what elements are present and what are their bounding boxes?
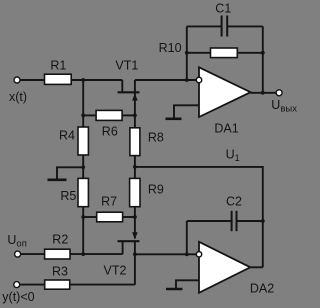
wire Uop to R2 [21, 253, 45, 255]
wire VT2 drain to DA2 input [135, 253, 197, 255]
wire feedback left vertical [186, 26, 188, 80]
wire DA2 noninv [176, 280, 199, 288]
node R6/R8 [133, 114, 137, 118]
node R5/R7 [81, 215, 85, 219]
wire R3 to VT2 source [70, 284, 135, 286]
svg-text:R6: R6 [102, 125, 118, 139]
node VT2 drain [133, 252, 137, 256]
wire x(t) to R1 [20, 79, 44, 81]
svg-text:R2: R2 [52, 233, 68, 247]
wire y(t) to R3 [20, 284, 45, 286]
wire R9 to R7 node [134, 207, 136, 239]
capacitor C1 [187, 16, 263, 37]
svg-text:y(t)<0: y(t)<0 [2, 290, 34, 304]
resistor R8 [130, 128, 140, 156]
node C2/input [185, 252, 189, 256]
wire feedback right vertical [262, 26, 264, 92]
node R2/R5 [81, 252, 85, 256]
transistor VT2 [118, 232, 140, 285]
node C2 right [261, 219, 265, 223]
svg-text:R10: R10 [159, 41, 182, 55]
svg-text:R8: R8 [148, 131, 164, 145]
node R9/R7 [133, 215, 137, 219]
terminal Uvyh [276, 90, 282, 96]
wire R7 right [123, 216, 135, 218]
terminal Uop [15, 251, 21, 257]
wire DA1 noninv [174, 105, 199, 118]
wire C2 to DA2 input [186, 221, 188, 254]
wire R6 right [122, 114, 135, 116]
resistor R5 [78, 178, 88, 206]
svg-text:R5: R5 [60, 189, 76, 203]
ground DA1 [166, 118, 182, 121]
wire R1 to VT1 gate [71, 79, 122, 81]
svg-text:DA1: DA1 [214, 121, 238, 135]
resistor R9 [130, 178, 140, 206]
resistor R7 [97, 212, 123, 222]
wire R8 top [134, 115, 136, 127]
svg-text:R4: R4 [59, 129, 75, 143]
terminal x(t) [14, 77, 20, 83]
svg-text:VT1: VT1 [115, 59, 138, 73]
wire R2 to VT2 gate [70, 253, 123, 255]
svg-text:DA2: DA2 [250, 281, 274, 295]
svg-text:R1: R1 [50, 58, 66, 72]
terminal y(t) [14, 282, 20, 288]
wire R8 to U1 node [134, 156, 136, 179]
svg-text:R9: R9 [148, 183, 164, 197]
node DA1 output [261, 91, 265, 95]
wire left column upper [82, 80, 84, 127]
svg-text:R7: R7 [101, 194, 117, 208]
resistor R1 [45, 74, 72, 84]
node feedback/input [185, 78, 189, 82]
capacitor C2 [187, 211, 263, 231]
node U1 [133, 165, 137, 169]
op-amp DA1 [196, 67, 250, 117]
svg-text:C2: C2 [226, 195, 242, 209]
svg-text:C1: C1 [215, 1, 231, 15]
ground DA2 [166, 288, 183, 291]
node R10 right [261, 51, 265, 55]
svg-text:VT2: VT2 [104, 263, 127, 277]
resistor R10 [211, 48, 238, 58]
resistor R4 [78, 127, 88, 155]
svg-text:x(t): x(t) [9, 90, 27, 104]
resistor R6 [96, 110, 122, 120]
wire R10 right [237, 52, 262, 54]
resistor R2 [45, 249, 70, 259]
node R4/R6 [81, 114, 85, 118]
wire R6 left [83, 114, 96, 116]
node after R1 [81, 78, 85, 82]
wire R5 to R7 node [82, 207, 84, 254]
op-amp DA2 [196, 242, 250, 293]
svg-text:R3: R3 [52, 265, 68, 279]
wire DA1 output [251, 92, 276, 94]
node R10 left [185, 51, 189, 55]
node ground tap [81, 165, 85, 169]
wire R10 left [187, 52, 211, 54]
wire DA2 output vertical [262, 221, 264, 267]
wire R4 to ground node [82, 155, 84, 178]
wire DA2 output [250, 266, 262, 268]
ground (left) [48, 167, 84, 180]
wire U1 line [135, 167, 263, 221]
resistor R3 [45, 280, 70, 289]
wire R7 left [83, 216, 97, 218]
wire VT1 drain to DA1 input [135, 79, 197, 81]
transistor VT1 [118, 80, 140, 115]
